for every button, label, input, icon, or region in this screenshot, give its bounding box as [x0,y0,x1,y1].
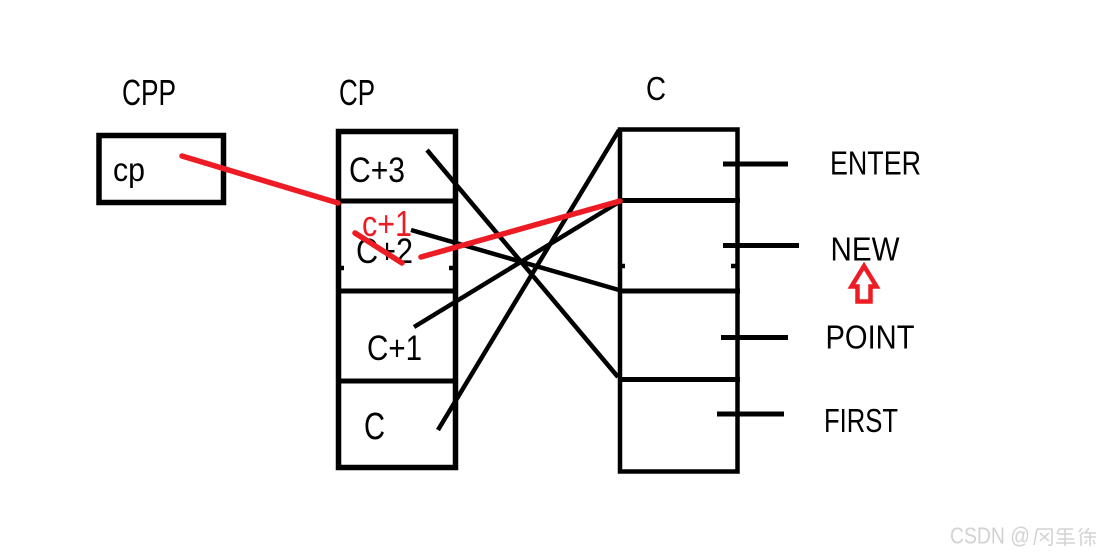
box CPP (cpp variable) [99,136,224,203]
box C column (c array) [620,130,738,472]
tick mark C left edge [620,264,625,269]
red check stroke over C+2 [355,233,402,263]
CP divider 3 [336,379,458,384]
tick line FIRST [717,412,784,417]
wire cp[2]=c+1 to c[1] (black line C) [414,202,619,327]
svg-text:ENTER: ENTER [830,145,921,182]
svg-text:CPP: CPP [122,72,176,113]
wire cp[0]=c+3 to c[3] (black line A) [427,150,618,377]
tick mark CP left edge [337,266,344,271]
tick mark C right edge [731,264,736,269]
svg-text:CP: CP [339,72,375,113]
wire cp to CP column (red line 1) [182,156,338,203]
watermark CJK glyph nian [1056,529,1075,546]
wire cp[1]=c+2 to c[2] (black line B) [411,230,619,290]
svg-text:NEW: NEW [831,231,901,268]
C divider 2 [618,289,740,294]
svg-text:C: C [646,70,666,107]
watermark CJK glyph xu [1079,528,1096,546]
red hollow arrow pointing up at NEW [852,266,877,302]
wire cp[3]=c to c[0] (black line D) [438,130,619,430]
svg-text:cp: cp [113,151,145,188]
C divider 3 [618,377,740,382]
svg-text:C+1: C+1 [367,329,422,368]
svg-text:C: C [364,406,385,448]
tick line ENTER [723,162,788,167]
tick line POINT [721,335,788,340]
box CP column (cp array) [339,132,456,468]
svg-text:POINT: POINT [826,319,915,356]
tick line NEW [723,243,799,248]
svg-text:FIRST: FIRST [824,402,898,439]
svg-text:CSDN @: CSDN @ [950,523,1030,549]
C divider 1 [618,198,740,203]
svg-text:C+3: C+3 [349,151,405,190]
CP divider 2 [336,289,458,294]
wire c+1 to c[1] (red line 2) [421,201,620,257]
watermark CJK glyph feng [1034,529,1052,545]
tick mark CP right edge [449,266,456,271]
CP divider 1 [336,199,458,204]
